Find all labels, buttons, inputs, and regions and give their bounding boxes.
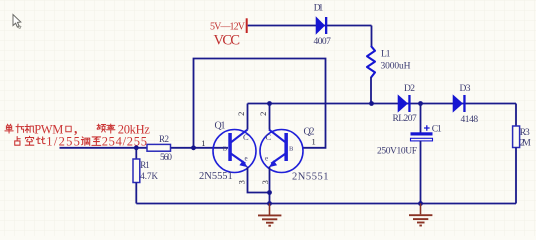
- svg-text:2N5551: 2N5551: [199, 171, 233, 182]
- svg-text:e: e: [265, 155, 268, 163]
- svg-text:VCC: VCC: [214, 33, 241, 49]
- resistor R1: [133, 148, 158, 204]
- wire bus right bend down to R3: [515, 104, 517, 127]
- svg-text:1: 1: [312, 137, 316, 147]
- transistor Q1: [199, 120, 256, 182]
- PWM input wire to R2 to Q1 base: [60, 147, 229, 149]
- 空: [25, 136, 33, 145]
- svg-text:e: e: [245, 155, 248, 163]
- capacitor C1: [377, 104, 442, 204]
- node emitters/bus: [267, 201, 272, 206]
- red annotation line 2: 占空比1/255调至254/255: [15, 136, 101, 145]
- Q1 emitter wire: [248, 167, 270, 193]
- wire VCC to D1 to bend: [248, 25, 372, 27]
- transistor Q2: [260, 126, 329, 182]
- 比: [36, 137, 45, 144]
- svg-text:RL207: RL207: [393, 114, 417, 124]
- 至: [92, 137, 101, 145]
- svg-text:2M: 2M: [520, 139, 532, 149]
- 占: [15, 137, 20, 146]
- svg-text:R1: R1: [140, 160, 150, 170]
- svg-text:C1: C1: [432, 124, 442, 134]
- svg-text:250V10UF: 250V10UF: [377, 146, 417, 156]
- svg-text:2: 2: [258, 112, 268, 116]
- feedback loop wire (top rectangle): [194, 59, 326, 148]
- 机: [25, 124, 34, 132]
- 单: [5, 124, 13, 133]
- svg-text:5V—12V: 5V—12V: [210, 22, 246, 33]
- resistor R2: [147, 134, 172, 163]
- node emitter join: [267, 190, 272, 195]
- svg-text:4.7K: 4.7K: [140, 171, 158, 181]
- svg-text:D3: D3: [460, 84, 471, 94]
- svg-text:Q1: Q1: [215, 120, 226, 131]
- svg-text:4007: 4007: [314, 37, 332, 47]
- node feedback/base: [191, 145, 196, 150]
- svg-text:B: B: [289, 146, 294, 153]
- 频: [97, 124, 106, 132]
- node C1/bus: [418, 201, 423, 206]
- 调: [81, 137, 89, 145]
- mouse cursor: [13, 15, 21, 29]
- svg-text:3000uH: 3000uH: [381, 62, 411, 72]
- svg-text:D1: D1: [314, 4, 324, 14]
- node L1/bus: [369, 101, 374, 106]
- power port VCC (5V-12V): [210, 18, 248, 33]
- svg-text:R2: R2: [159, 134, 169, 144]
- Q2 collector wire: [269, 104, 271, 130]
- main bus wire: [248, 103, 517, 105]
- resistor R3: [513, 126, 532, 149]
- 口: [66, 126, 71, 132]
- node D2/C1: [418, 101, 423, 106]
- node R1 top: [134, 145, 139, 150]
- ground (emitters): [258, 204, 281, 226]
- diode D1: [314, 4, 332, 48]
- ground (C1): [409, 204, 432, 226]
- 率: [107, 124, 115, 133]
- node Q2 collector: [267, 101, 272, 106]
- svg-text:L1: L1: [381, 49, 391, 59]
- 片: [16, 124, 24, 133]
- red annotation line 1: 单片机PWM口，频率20kHz: [5, 124, 115, 133]
- wire R3 bottom to bus: [515, 148, 517, 204]
- Q2 emitter wire: [269, 167, 271, 204]
- svg-text:D2: D2: [404, 84, 415, 94]
- svg-text:560: 560: [160, 153, 172, 163]
- svg-text:1: 1: [201, 138, 205, 148]
- svg-text:C: C: [243, 132, 249, 142]
- wire down to L1 top: [371, 26, 373, 47]
- svg-text:254/255: 254/255: [102, 135, 147, 149]
- svg-text:C: C: [266, 132, 272, 142]
- svg-text:4148: 4148: [461, 115, 479, 125]
- svg-text:2: 2: [236, 112, 246, 116]
- inductor L1: [367, 46, 411, 78]
- svg-text:1/255: 1/255: [46, 135, 80, 149]
- wire L1 bottom to bus: [370, 77, 372, 104]
- svg-text:3: 3: [237, 180, 247, 184]
- Q1 collector wire: [247, 104, 249, 130]
- svg-text:B: B: [223, 146, 228, 153]
- diode D2: [393, 84, 417, 124]
- bottom bus wire: [136, 203, 516, 205]
- diode D3: [453, 84, 478, 125]
- svg-text:2N5551: 2N5551: [292, 171, 329, 182]
- svg-text:R3: R3: [520, 128, 530, 138]
